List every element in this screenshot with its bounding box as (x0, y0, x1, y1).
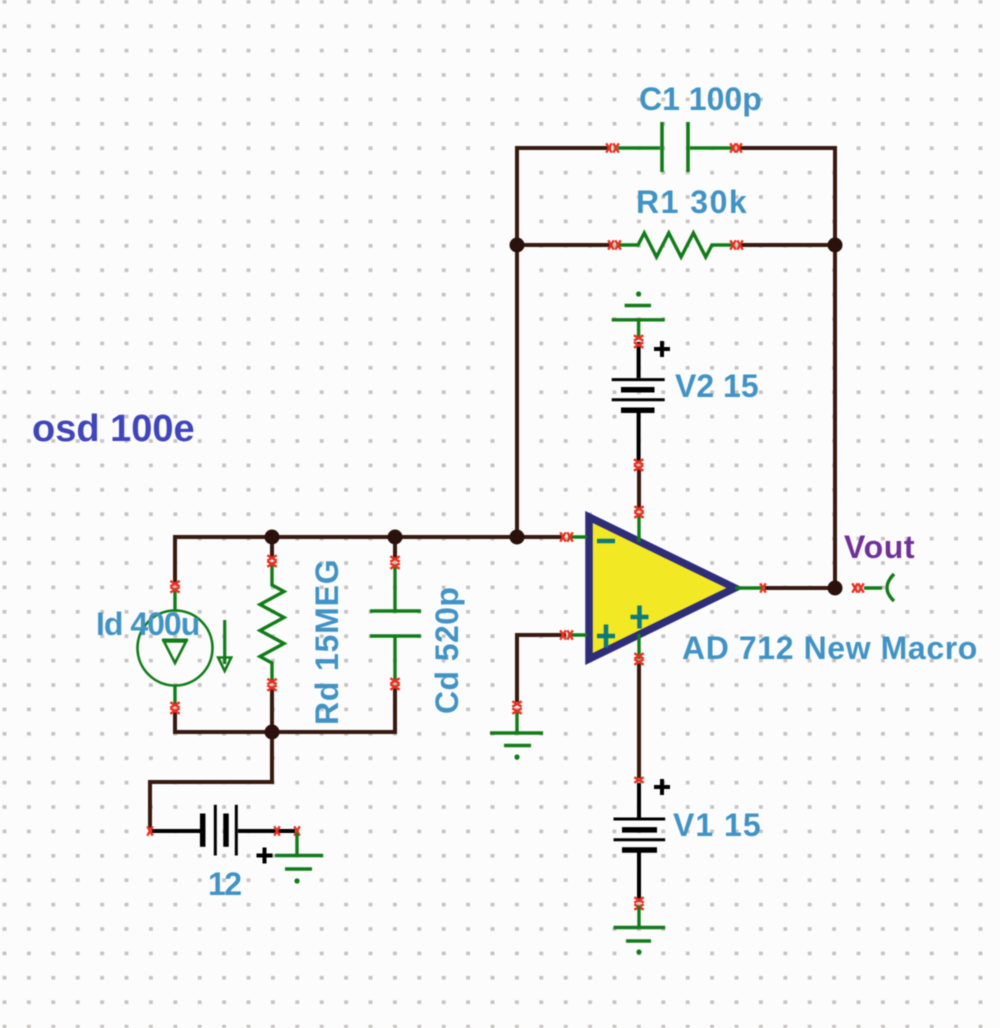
ground (V2, inverted above battery) (612, 306, 665, 339)
wire op-amp plus pin to ground (left then down) (517, 635, 566, 702)
junction node R1 left / feedback (510, 238, 525, 253)
op-amp U1 AD712 (589, 517, 735, 659)
capacitor C1 (618, 122, 732, 172)
wire top horizontal left segment (corner to C1 left pin) (515, 146, 611, 150)
polarity + B1 (257, 848, 273, 864)
wire R1 left (left vertical to R1 left pin) (517, 243, 612, 247)
svg-text:Cd 520p: Cd 520p (429, 587, 465, 714)
capacitor Cd (370, 566, 421, 680)
resistor R1 (618, 233, 733, 257)
junction node Rd bottom (265, 725, 280, 740)
op-amp non-inverting input lead (568, 633, 587, 636)
junction node inverting input (510, 530, 525, 545)
ground (non-inverting input) (490, 710, 543, 746)
wire Rd top stub (270, 537, 274, 559)
pin marks V2 (634, 335, 643, 340)
op-amp output lead (735, 586, 762, 589)
junction node Cd top (388, 530, 403, 545)
wire op-amp output to Vout node (765, 586, 835, 590)
svg-text:V1 15: V1 15 (673, 807, 762, 843)
wire V2 bottom to op-amp top power pin (637, 468, 641, 510)
polarity + V1 (654, 779, 670, 795)
node Vout output terminal (852, 583, 857, 592)
battery V1 (614, 783, 666, 902)
battery B1 12V (152, 805, 295, 856)
wire bottom rail to battery B1 (down, left, down) (150, 732, 272, 828)
svg-text:C1 100p: C1 100p (639, 81, 762, 117)
wire bottom rail horizontal (173, 730, 395, 734)
pin marks Id (170, 581, 179, 586)
polarity + V2 (654, 341, 670, 357)
wire Id bottom to bottom rail (173, 710, 177, 734)
svg-text:osd 100e: osd 100e (32, 408, 195, 450)
wire top horizontal right segment (C1 right pin to right corner) (739, 146, 837, 150)
wire top-left feedback: from top wire corner down left vertical to inverting node (515, 146, 519, 537)
wire R1 right (R1 right pin to right vertical) (739, 243, 835, 247)
wire Id top lead-in (173, 535, 177, 584)
wire op-amp bottom power pin to V1 top (637, 662, 641, 778)
svg-text:Vout: Vout (844, 529, 915, 565)
ground (V1) (614, 906, 666, 941)
op-amp plus mark (non-inverting) (597, 625, 615, 648)
pin marks V1 (634, 777, 643, 782)
resistor Rd (260, 564, 284, 680)
current source arrow (223, 620, 226, 664)
pin marks R1 (608, 240, 613, 249)
op-amp inverting input lead (568, 535, 587, 538)
svg-text:R1 30k: R1 30k (636, 184, 748, 220)
wire input top horizontal (Id top to inverting node) (175, 535, 517, 539)
pin marks B1 (147, 826, 152, 835)
op-amp top power pin lead (637, 516, 640, 542)
junction node Rd top (265, 530, 280, 545)
svg-text:AD 712 New Macro: AD 712 New Macro (682, 630, 978, 666)
pin marks Cd (390, 556, 399, 561)
junction node Vout (828, 581, 843, 596)
svg-text:Id 400u: Id 400u (96, 606, 199, 642)
op-amp minus mark (597, 539, 615, 544)
svg-text:12: 12 (208, 866, 241, 902)
op-amp plus mark (power) (631, 606, 649, 629)
op-amp bottom power pin lead (637, 634, 640, 659)
wire Cd bottom to bottom rail (393, 687, 397, 734)
ground (B1) (275, 833, 323, 869)
wire Cd top stub (393, 537, 397, 560)
wire inverting node to op-amp minus pin (517, 535, 564, 539)
svg-text:Rd 15MEG: Rd 15MEG (309, 559, 345, 725)
pin marks Rd (267, 555, 276, 560)
wire right feedback vertical down to output node (833, 146, 837, 588)
battery V2 (612, 342, 665, 463)
pin marks op-amp (634, 506, 643, 511)
junction node R1 right / feedback (828, 238, 843, 253)
svg-text:V2 15: V2 15 (675, 368, 759, 404)
pin marks C1 (606, 143, 611, 152)
wire Rd bottom to bottom rail (270, 687, 274, 732)
pin marks ground noninv (512, 701, 521, 706)
current source Id (138, 590, 213, 706)
